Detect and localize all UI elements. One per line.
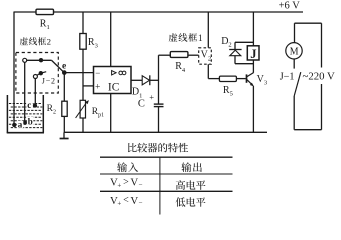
svg-text:1: 1 — [198, 34, 203, 44]
svg-text:a: a — [18, 120, 23, 130]
svg-text:2: 2 — [47, 37, 51, 47]
svg-text:+: + — [149, 92, 154, 102]
svg-text:>: > — [123, 177, 129, 188]
svg-text:V: V — [130, 195, 138, 207]
svg-text:J−1: J−1 — [280, 71, 295, 82]
svg-text:<: < — [123, 195, 129, 206]
svg-text:+: + — [117, 182, 121, 190]
svg-text:J: J — [250, 47, 256, 61]
svg-text:M: M — [290, 46, 299, 58]
svg-text:+: + — [117, 200, 121, 208]
svg-text:−: − — [139, 199, 143, 207]
svg-text:V: V — [130, 177, 138, 189]
svg-text:IC: IC — [108, 81, 120, 93]
svg-text:c: c — [27, 100, 31, 110]
svg-text:+: + — [95, 82, 100, 92]
svg-text:+6 V: +6 V — [279, 1, 301, 12]
svg-text:−: − — [95, 68, 100, 78]
svg-text:b: b — [28, 116, 33, 126]
svg-text:−: − — [139, 181, 143, 189]
svg-text:C: C — [138, 99, 145, 110]
svg-text:e: e — [62, 62, 66, 72]
svg-text:J−2: J−2 — [42, 76, 56, 85]
svg-text:~220 V: ~220 V — [303, 71, 336, 83]
